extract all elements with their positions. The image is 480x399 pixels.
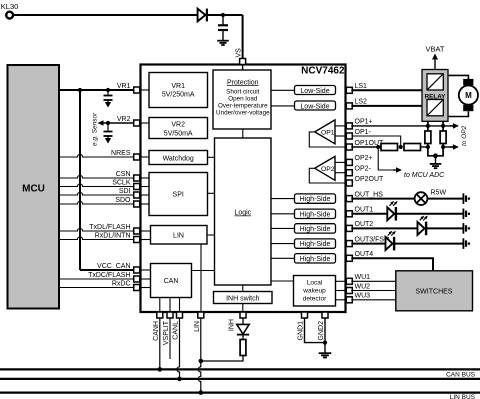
terminal supply OUT1 (462, 209, 464, 220)
pin NRES (134, 154, 140, 160)
wire wakeup detector to WU3 pin (336, 299, 346, 301)
wire RxDC MCU to pin (59, 287, 140, 289)
svg-text:OP2-: OP2- (355, 166, 372, 173)
wire CANL to CAN bus low (177, 318, 180, 379)
ground module (319, 352, 332, 354)
pin GND2 (322, 312, 328, 318)
svg-text:LS2: LS2 (355, 99, 368, 106)
capacitor C3 on VR2 (107, 123, 109, 131)
bus CAN low line (0, 378, 480, 380)
svg-text:Short circuit: Short circuit (226, 88, 259, 95)
wire SDO MCU to pin (59, 201, 140, 204)
wire watchdog to logic (208, 156, 215, 158)
svg-text:Watchdog: Watchdog (163, 156, 194, 163)
regulator block VR1 (149, 73, 208, 108)
junction feedback node (399, 145, 403, 149)
svg-text:OP1+: OP1+ (355, 119, 373, 126)
wire WU1 to switches (351, 280, 396, 282)
svg-text:NCV7462: NCV7462 (301, 66, 345, 77)
resistor R2 (right sense) (440, 131, 446, 144)
wire protection to low-side 1 (271, 89, 295, 91)
pin LS1 (346, 87, 352, 93)
svg-text:SDI: SDI (119, 188, 131, 195)
svg-text:Low-Side: Low-Side (300, 88, 329, 95)
pin CSN (134, 175, 140, 181)
svg-text:WU1: WU1 (355, 274, 371, 281)
wire pin CSN into block (141, 177, 150, 179)
pin OUT1 (346, 211, 352, 217)
wire TxDC/FLASH MCU to pin (59, 278, 140, 280)
svg-text:VR1: VR1 (117, 83, 131, 90)
pin RxDL/INTN (134, 237, 140, 243)
svg-text:OP1: OP1 (321, 129, 335, 136)
wire right sense to OP2 arrow (443, 146, 453, 148)
wire VS pin to protection (242, 65, 244, 71)
wire wakeup detector to WU1 pin (336, 280, 346, 282)
wire relay to motor top (448, 75, 468, 79)
svg-text:OUT4: OUT4 (355, 251, 374, 258)
pin VR1 (134, 87, 140, 93)
junction GND (323, 341, 327, 345)
svg-text:LIN BUS: LIN BUS (450, 394, 476, 399)
SPI block (149, 173, 208, 216)
ground below sense network (430, 163, 442, 165)
wire INH switch to INH pin (242, 304, 244, 313)
svg-text:LIN: LIN (194, 321, 201, 332)
svg-text:VR2: VR2 (171, 122, 185, 129)
pin OP2- (346, 170, 352, 176)
wire OUT1 to LED1 (351, 213, 387, 215)
svg-text:INH switch: INH switch (226, 296, 260, 303)
svg-text:TxDC/FLASH: TxDC/FLASH (88, 272, 130, 279)
wire relay to sense resistor R1 (427, 121, 429, 131)
pin VR2 (134, 120, 140, 126)
svg-text:to OP2: to OP2 (461, 125, 468, 146)
arrow to VBAT (434, 59, 436, 70)
IC U1 NCV7462 outline (141, 65, 346, 313)
CAN transceiver block (151, 264, 192, 298)
svg-text:e.g. Sensor: e.g. Sensor (92, 112, 99, 146)
svg-text:SCLK: SCLK (112, 179, 131, 186)
svg-text:CANH: CANH (153, 321, 160, 341)
svg-text:OP1-: OP1- (355, 129, 372, 136)
svg-text:CAN BUS: CAN BUS (446, 372, 476, 379)
svg-text:GND2: GND2 (318, 321, 325, 341)
pin VS (240, 59, 246, 65)
LED D2 on OUT1 (387, 207, 394, 220)
wire LIN pin to LIN bus (198, 318, 201, 393)
terminal supply OUT_HS (462, 193, 464, 204)
wire RxDL/INTN MCU to pin (59, 237, 140, 240)
wire logic to high-side OUT1 (271, 213, 295, 215)
pin OP2+ (346, 159, 352, 165)
svg-text:VBAT: VBAT (425, 45, 444, 54)
relay contact 2 (427, 100, 443, 116)
wire OP1+ sense line (351, 125, 453, 127)
high-side driver 1 (295, 194, 336, 203)
svg-text:RxDL/INTN: RxDL/INTN (95, 232, 131, 239)
svg-text:High-Side: High-Side (300, 211, 331, 218)
wire logic to high-side OUT_HS (271, 198, 295, 200)
svg-text:Local: Local (307, 280, 323, 287)
resistor R3 (381, 144, 398, 151)
wire SCLK MCU to pin (59, 184, 140, 187)
LED D4 on OUT3/FSO (386, 237, 393, 250)
svg-text:Protection: Protection (227, 79, 259, 86)
wire OUT4 to switches (351, 258, 433, 271)
INH switch block (214, 292, 273, 304)
wire relay to sense resistor R2 (442, 121, 444, 131)
wire OUT_HS to lamp (351, 198, 414, 200)
wire VR1 trunk down to VCC_CAN (79, 90, 81, 270)
MCU block (8, 65, 60, 309)
svg-text:VSPLIT: VSPLIT (163, 320, 170, 345)
wire GND1 down (305, 318, 326, 343)
svg-text:OP2+: OP2+ (355, 155, 373, 162)
svg-text:INH: INH (229, 319, 236, 331)
wire OP1 output loop (309, 132, 345, 147)
svg-text:Under/over-voltage: Under/over-voltage (216, 109, 270, 116)
svg-text:Over-temperature: Over-temperature (218, 102, 268, 109)
svg-text:OUT2: OUT2 (355, 221, 374, 228)
wire logic to high-side OUT4 (271, 257, 295, 259)
wire pin SDI into block (141, 194, 150, 196)
wire pin VR2 into block (141, 122, 150, 124)
pin WU3 (346, 297, 352, 303)
relay K1 (422, 70, 448, 122)
high-side driver 5 (295, 254, 336, 263)
LIN transceiver block (151, 226, 208, 245)
svg-text:VR1: VR1 (171, 83, 185, 90)
wire down to VS pin (242, 15, 244, 59)
wire LED1 to terminal (397, 213, 464, 215)
svg-text:SWITCHES: SWITCHES (416, 289, 453, 296)
wire WU3 to switches (351, 299, 396, 301)
wire CSN MCU to pin (59, 175, 140, 178)
high-side driver 2 (295, 209, 336, 218)
pin VCC_CAN (134, 267, 140, 273)
pin INH (240, 312, 246, 318)
wire OUT3/FSO to LED3 (351, 243, 385, 245)
local wakeup detector block (294, 276, 336, 307)
watchdog block (149, 151, 208, 165)
capacitor C1 (VS buffer) (222, 15, 224, 25)
pin OP1- (346, 133, 352, 139)
pin LS2 (346, 103, 352, 109)
protection block (213, 70, 271, 129)
wire VSPLIT stub (169, 318, 171, 359)
svg-text:MCU: MCU (22, 184, 45, 195)
svg-text:CANL: CANL (173, 321, 180, 340)
wire protection to low-side 2 (271, 105, 295, 107)
pin OUT2 (346, 225, 352, 231)
wire R4 to left sense vertical (421, 146, 428, 148)
wire CANH to CAN bus high (159, 318, 161, 369)
svg-text:NRES: NRES (111, 150, 131, 157)
wire LS2 to relay (351, 105, 422, 107)
pin OP1+ (346, 123, 352, 129)
svg-text:WU3: WU3 (355, 293, 371, 300)
wire GND2 down (324, 318, 326, 353)
svg-text:OUT1: OUT1 (355, 207, 374, 214)
pin LIN (198, 312, 204, 318)
svg-text:High-Side: High-Side (300, 241, 331, 248)
wire logic to wakeup detector (271, 280, 294, 282)
op-amp OP2 (315, 156, 335, 180)
svg-text:WU2: WU2 (355, 283, 371, 290)
wire resistor to LIN node (201, 356, 243, 362)
pin OUT_HS (346, 196, 352, 202)
wire pin TxDC/FLASH into block (141, 278, 151, 280)
wire SPI to logic (208, 192, 215, 194)
logic block (215, 138, 272, 285)
switches block (396, 271, 473, 311)
svg-text:Open load: Open load (228, 95, 258, 102)
junction ground node (433, 153, 438, 158)
pin TxDC/FLASH (134, 276, 140, 282)
high-side driver 3 (295, 224, 336, 233)
wire logic to high-side OUT3/FSO (271, 243, 295, 245)
wire ADC tap down and right (378, 147, 396, 170)
pin SCLK (134, 184, 140, 190)
wire LED3 to terminal (395, 243, 463, 245)
regulator block VR2 (149, 118, 208, 139)
wire pin NRES into block (141, 156, 150, 158)
wire NRES MCU to pin (59, 154, 140, 157)
wire LS1 to relay (351, 89, 422, 91)
bus LIN line (0, 392, 480, 394)
svg-text:to MCU ADC: to MCU ADC (404, 172, 445, 179)
wire pin RxDC into block (141, 287, 151, 289)
pin OP2OUT (346, 180, 352, 186)
wire pin VR1 into block (141, 89, 150, 91)
svg-text:LIN: LIN (173, 233, 184, 240)
junction ADC tap (376, 145, 380, 149)
LED D3 on OUT2 (418, 222, 425, 235)
svg-text:GND1: GND1 (298, 321, 305, 341)
wire diode to VS corner (207, 14, 243, 16)
wire LIN block to LIN pin (200, 244, 202, 312)
pin OP1OUT (346, 144, 352, 150)
motor M1 (463, 79, 473, 86)
high-side driver 4 (295, 239, 336, 248)
terminal supply OUT2 (462, 223, 464, 234)
wire pin RxDL/INTN into block (141, 239, 151, 241)
junction LIN / INH pullup (199, 359, 204, 364)
wire CAN block to VSPLIT pin (169, 298, 171, 313)
wire LIN block to logic (207, 234, 215, 236)
bus CAN high line (0, 368, 480, 370)
wire WU2 to switches (351, 290, 396, 292)
pin VSPLIT (167, 312, 173, 318)
svg-text:M: M (465, 91, 472, 100)
wire CAN block to CANL pin (179, 298, 181, 313)
resistor R1 (left sense) (425, 131, 431, 144)
wire OUT2 to LED2 (351, 227, 417, 229)
diode D1 (reverse battery) (198, 9, 206, 22)
svg-text:SPI: SPI (173, 192, 184, 199)
svg-text:Logic: Logic (234, 210, 251, 217)
svg-text:OUT_HS: OUT_HS (355, 191, 384, 198)
svg-text:SDO: SDO (115, 197, 131, 204)
wire feedback to OP1- (353, 136, 401, 147)
terminal supply OUT3 (462, 238, 464, 249)
pin GND1 (302, 312, 308, 318)
pin CANH (157, 312, 163, 318)
wire OP2 output loop (309, 168, 345, 183)
junction at C1 (221, 13, 225, 17)
pin TxDL/FLASH (134, 228, 140, 234)
svg-text:CAN: CAN (164, 278, 179, 285)
wire pin SDO into block (141, 203, 150, 205)
svg-text:TxDL/FLASH: TxDL/FLASH (89, 224, 130, 231)
svg-text:High-Side: High-Side (300, 196, 331, 203)
wire LED2 to terminal (427, 227, 463, 229)
wire TxDL/FLASH MCU to pin (59, 228, 140, 231)
low-side driver 1 (295, 86, 336, 95)
resistor R4 (404, 144, 421, 151)
svg-text:VS: VS (236, 48, 243, 58)
wire CAN block to logic (192, 270, 215, 272)
wire KL30 to diode D1 (13, 14, 199, 16)
pin OUT4 (346, 255, 352, 261)
svg-text:R5W: R5W (431, 189, 447, 196)
wire pin VCC_CAN into block (141, 269, 151, 271)
wire INH pin down to diode (242, 318, 244, 324)
wire OP1OUT row (351, 146, 381, 148)
svg-text:OP2OUT: OP2OUT (355, 176, 385, 183)
svg-text:5V/250mA: 5V/250mA (162, 92, 195, 99)
wire VR1 rail (MCU supply) (59, 89, 140, 91)
wire lamp to supply terminal (427, 198, 463, 200)
wire CAN block to CANH pin (159, 298, 161, 313)
wire logic to high-side OUT2 (271, 227, 295, 229)
wire logic to INH switch (242, 285, 244, 292)
wire wakeup detector to WU2 pin (336, 290, 346, 292)
pin RxDC (134, 285, 140, 291)
low-side driver 2 (295, 101, 336, 110)
pin CANL (177, 312, 183, 318)
wire R2 bottom to ground node (436, 144, 444, 156)
wire pin TxDL/FLASH into block (141, 230, 151, 232)
wire protection to logic (242, 129, 244, 138)
svg-text:High-Side: High-Side (300, 226, 331, 233)
wire pin SCLK into block (141, 186, 150, 188)
svg-text:RxDC: RxDC (112, 280, 131, 287)
pin OUT3/FSO (346, 241, 352, 247)
wire VR2 to sensor (left arrow) (103, 122, 140, 124)
svg-text:KL30: KL30 (1, 2, 19, 11)
pin SDO (134, 201, 140, 207)
svg-text:High-Side: High-Side (300, 256, 331, 263)
diode D5 (INH to LIN master termination) (237, 324, 249, 334)
pin WU1 (346, 278, 352, 284)
ground below C1 (217, 40, 229, 42)
wire R1 bottom to ground node (428, 144, 436, 156)
node KL30 terminal (6, 12, 13, 19)
wire SDI MCU to pin (59, 192, 140, 195)
pin WU2 (346, 288, 352, 294)
resistor R5 (LIN master pullup) (240, 340, 246, 356)
wire motor bottom to relay (448, 111, 468, 116)
svg-text:Low-Side: Low-Side (300, 104, 329, 111)
relay contact 1 (427, 74, 443, 90)
svg-text:VR2: VR2 (117, 116, 131, 123)
svg-text:detector: detector (303, 296, 327, 303)
svg-text:CSN: CSN (116, 171, 131, 178)
svg-text:wakeup: wakeup (302, 288, 326, 295)
pin SDI (134, 192, 140, 198)
svg-text:LS1: LS1 (355, 83, 368, 90)
op-amp OP1 (315, 120, 335, 144)
lamp R5W (bulb) (415, 192, 428, 205)
svg-text:OP2: OP2 (321, 166, 335, 173)
capacitor C2 on VR1 (107, 90, 109, 95)
svg-text:VCC_CAN: VCC_CAN (97, 263, 130, 270)
svg-text:5V/50mA: 5V/50mA (164, 131, 193, 138)
